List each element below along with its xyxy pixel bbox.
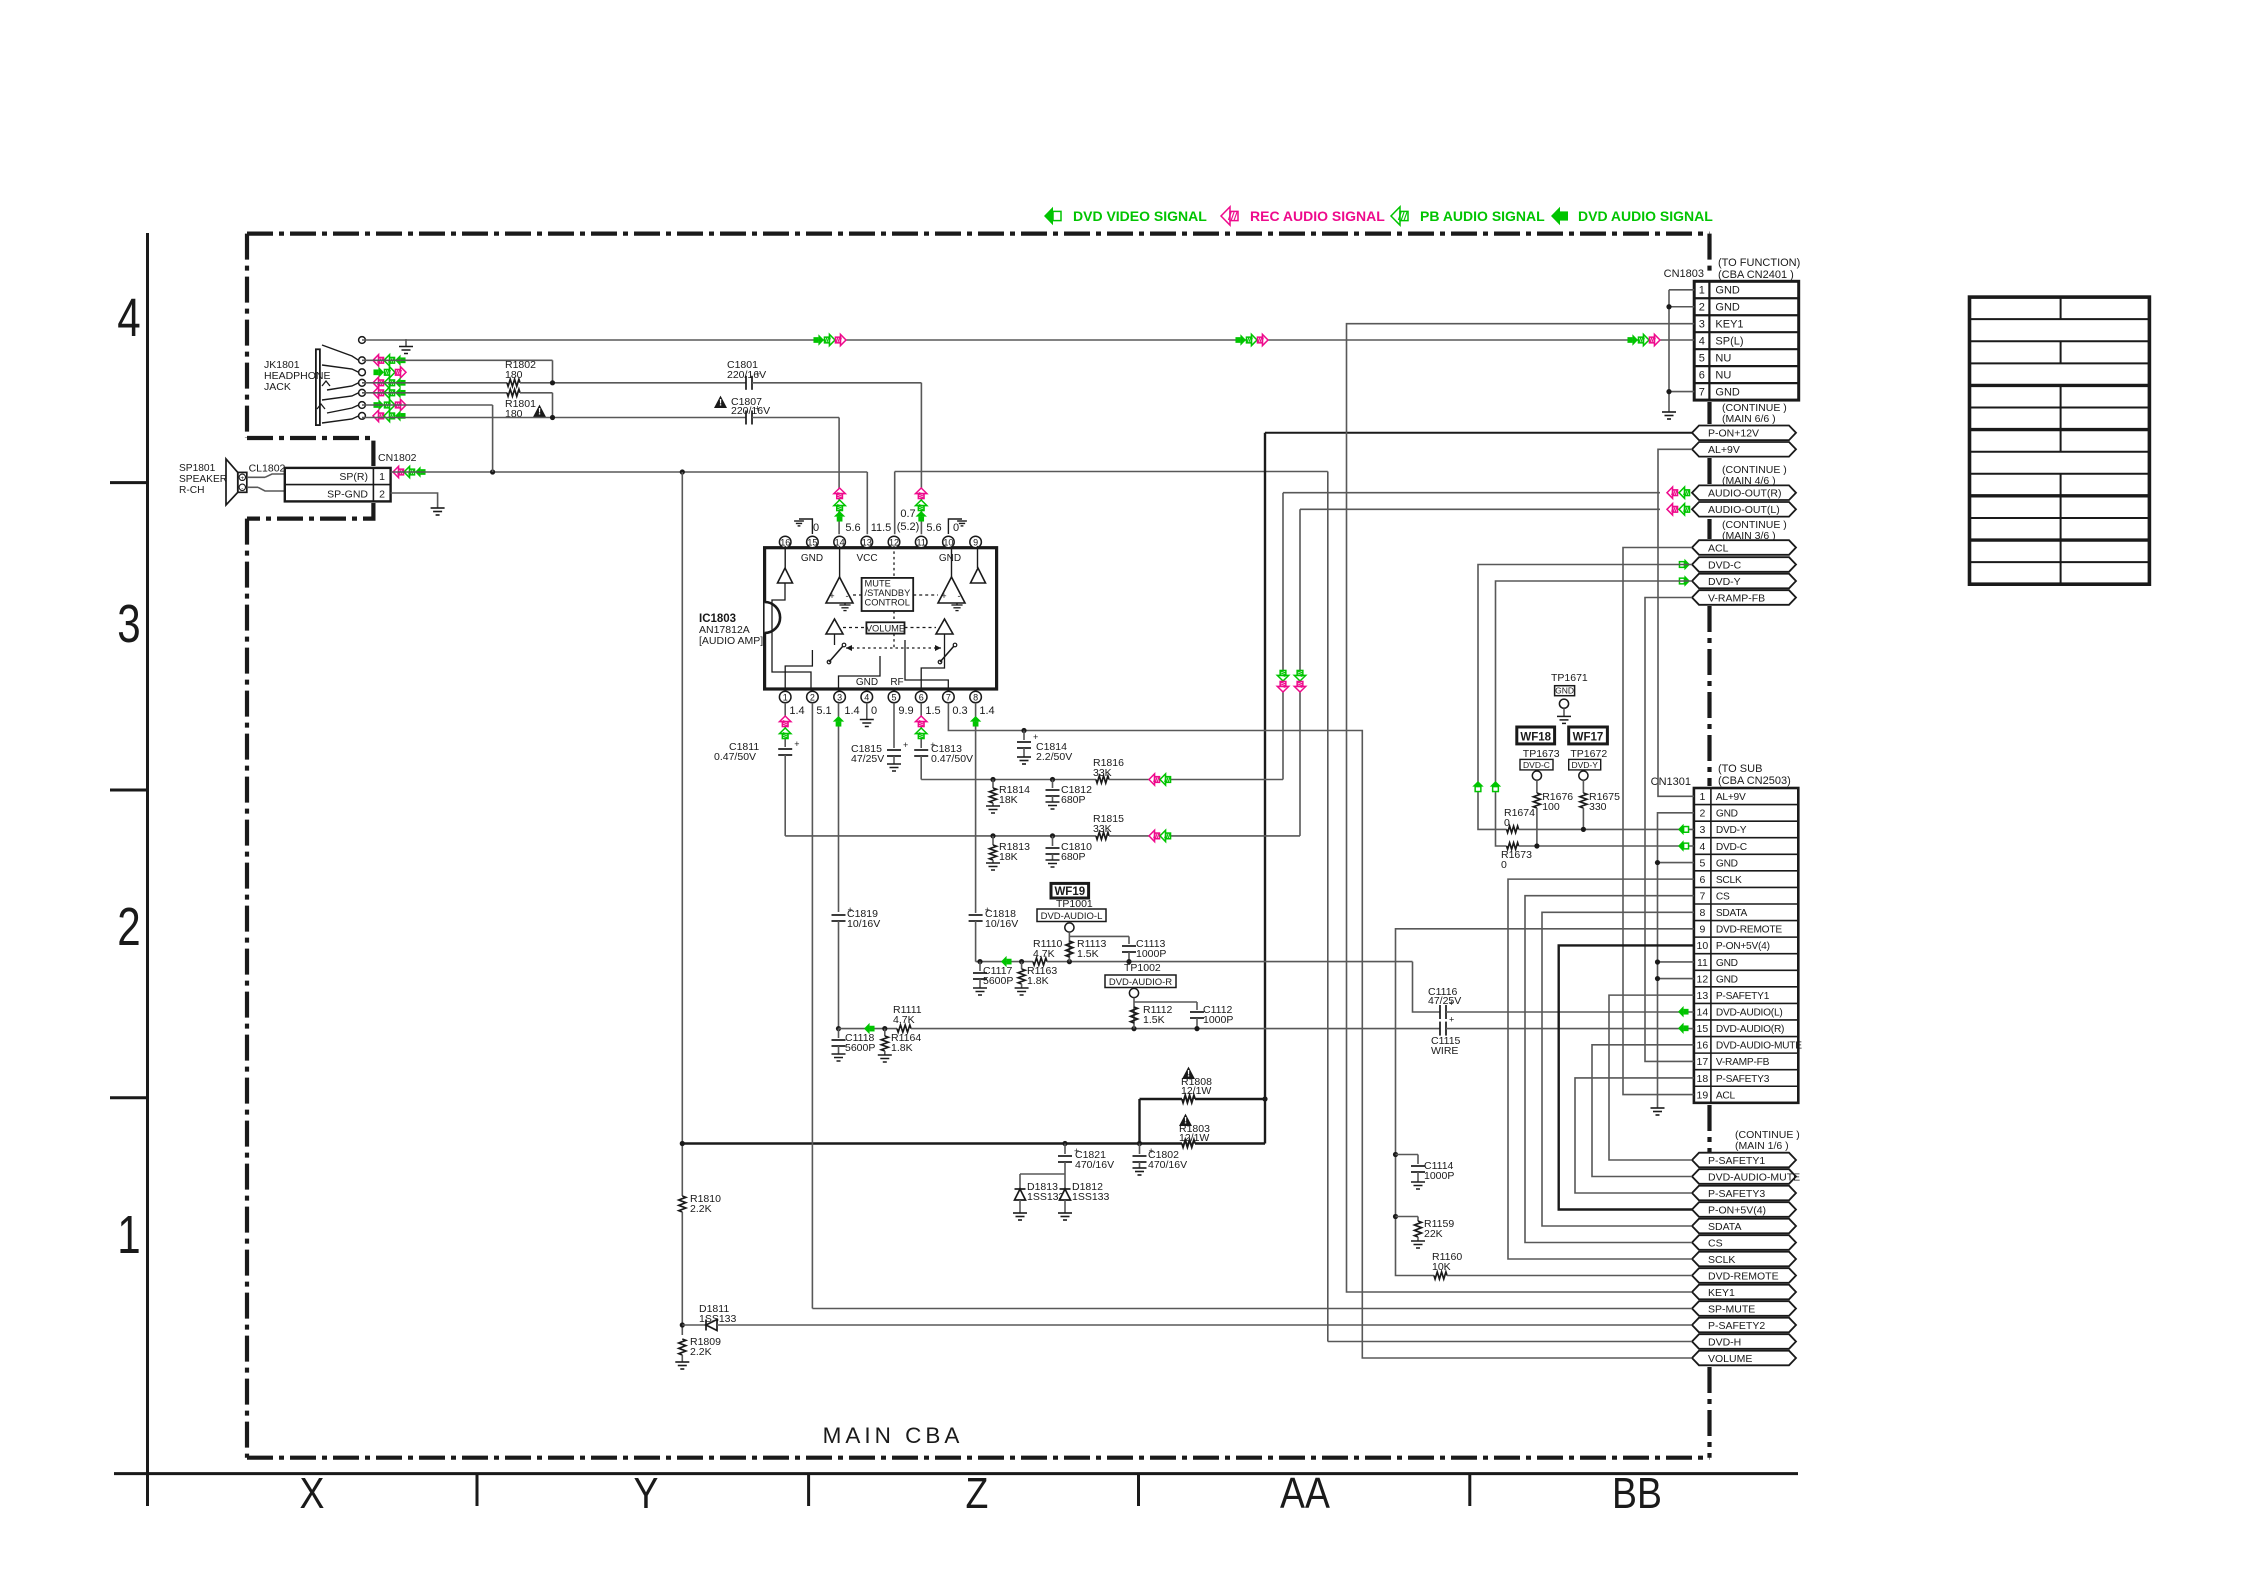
flag P-SAFETY1 — [1692, 1153, 1796, 1168]
svg-text:[AUDIO AMP]: [AUDIO AMP] — [699, 635, 763, 647]
svg-text:GND: GND — [1555, 686, 1574, 696]
svg-text:DVD VIDEO SIGNAL: DVD VIDEO SIGNAL — [1073, 208, 1207, 224]
svg-text:AA: AA — [1280, 1468, 1331, 1518]
svg-text:GND: GND — [1716, 958, 1738, 969]
svg-text:2: 2 — [379, 488, 385, 500]
flag KEY1 — [1692, 1285, 1796, 1300]
svg-text:P-ON+12V: P-ON+12V — [1708, 428, 1759, 440]
svg-text:SPEAKER: SPEAKER — [179, 474, 227, 485]
svg-text:P-SAFETY3: P-SAFETY3 — [1708, 1188, 1765, 1200]
flag SDATA — [1692, 1219, 1796, 1234]
svg-text:5: 5 — [1699, 857, 1705, 869]
svg-text:V-RAMP-FB: V-RAMP-FB — [1708, 592, 1765, 604]
pin 4 ground — [866, 703, 868, 720]
svg-text:P-ON+5V(4): P-ON+5V(4) — [1708, 1204, 1766, 1216]
svg-text:DVD-AUDIO(L): DVD-AUDIO(L) — [1716, 1007, 1783, 1018]
svg-text:P-ON+5V(4): P-ON+5V(4) — [1716, 941, 1770, 952]
flag SCLK — [1692, 1252, 1796, 1267]
flag DVD-Y — [1692, 574, 1796, 589]
svg-text:+: + — [1074, 1146, 1079, 1156]
svg-text:(CBA CN2503): (CBA CN2503) — [1718, 775, 1791, 787]
svg-text:+: + — [985, 905, 990, 915]
svg-text:ACL: ACL — [1708, 542, 1729, 554]
svg-text:WF18: WF18 — [1520, 731, 1551, 743]
diodes D1813 D1812 — [1020, 1173, 1065, 1175]
svg-text:5: 5 — [891, 693, 896, 703]
wire CS — [1525, 896, 1694, 1243]
svg-text:P-SAFETY3: P-SAFETY3 — [1716, 1074, 1770, 1085]
svg-text:SCLK: SCLK — [1708, 1254, 1735, 1266]
svg-text:18: 18 — [1697, 1073, 1709, 1085]
svg-text:KEY1: KEY1 — [1708, 1287, 1735, 1299]
arrows on SP(L) wire — [813, 334, 824, 345]
pin 1 net to AUDIO-OUT(L) — [784, 703, 786, 747]
svg-text:(CBA CN2401 ): (CBA CN2401 ) — [1718, 269, 1794, 281]
svg-text:DVD-REMOTE: DVD-REMOTE — [1708, 1270, 1779, 1282]
svg-text:47/25V: 47/25V — [851, 753, 884, 765]
svg-text:+: + — [1033, 732, 1038, 742]
svg-text:2: 2 — [1699, 302, 1705, 314]
svg-text:1: 1 — [379, 471, 385, 483]
svg-text:10: 10 — [1697, 940, 1709, 952]
legend: DVD AUDIO SIGNAL — [1551, 207, 1568, 225]
svg-text:1SS133: 1SS133 — [1072, 1191, 1110, 1203]
capacitor C1114 — [1393, 1152, 1398, 1157]
svg-text:DVD-H: DVD-H — [1708, 1336, 1741, 1348]
AUDIO-OUT(L) riser — [1299, 509, 1301, 836]
flag P-ON+5V(4) — [1692, 1202, 1796, 1217]
svg-text:17: 17 — [1697, 1056, 1709, 1068]
flag P-SAFETY2 — [1692, 1318, 1796, 1333]
svg-text:NU: NU — [1715, 352, 1731, 364]
svg-text:330: 330 — [1589, 801, 1607, 813]
border frame — [146, 233, 149, 1506]
svg-text:-: - — [241, 485, 243, 492]
arrows above pin 11 — [915, 488, 926, 499]
connector CN1803 — [1694, 281, 1799, 400]
svg-text:2: 2 — [810, 693, 815, 703]
legend: REC AUDIO SIGNAL — [1221, 207, 1238, 225]
svg-text:SP-GND: SP-GND — [327, 488, 368, 500]
svg-text:0.7: 0.7 — [900, 508, 915, 520]
arrows on R1816 line — [1149, 774, 1160, 785]
DVD-AUDIO-L line — [976, 961, 1033, 963]
svg-text:VOLUME: VOLUME — [866, 623, 905, 633]
test point TP1002 — [1131, 1026, 1136, 1031]
svg-text:MUTE: MUTE — [865, 579, 891, 589]
resistor R1159 — [1393, 1214, 1398, 1219]
wire SDATA — [1542, 912, 1694, 1226]
svg-text:+: + — [240, 475, 244, 482]
flag V-RAMP-FB — [1692, 590, 1796, 605]
svg-text:2.2K: 2.2K — [690, 1203, 712, 1215]
svg-text:PB AUDIO SIGNAL: PB AUDIO SIGNAL — [1420, 208, 1545, 224]
svg-text:11: 11 — [917, 538, 926, 548]
svg-text:0.3: 0.3 — [952, 705, 967, 717]
resistor R1814 — [990, 777, 995, 782]
resistor R1813 — [990, 833, 995, 838]
arrow into DVD-C — [1679, 559, 1690, 570]
wire VOLUME from IC pin7 — [948, 703, 1692, 1358]
capacitor C1807 — [714, 396, 727, 408]
wire P-SAFETY3 — [1575, 1078, 1694, 1193]
waveform box WF18 — [1517, 727, 1555, 744]
flag P-ON+12V — [1692, 426, 1796, 441]
svg-text:CL1802: CL1802 — [249, 463, 286, 475]
flag AL+9V — [1692, 442, 1796, 457]
jack pin at y=405.0 — [359, 402, 366, 409]
svg-text:5: 5 — [1699, 352, 1705, 364]
svg-text:(TO SUB: (TO SUB — [1718, 763, 1762, 775]
svg-text:GND: GND — [939, 553, 961, 564]
svg-text:100: 100 — [1542, 801, 1560, 813]
pin 5 to C1815 — [893, 703, 895, 748]
svg-text:(TO FUNCTION): (TO FUNCTION) — [1718, 257, 1800, 269]
flag AUDIO-OUT(R) — [1692, 485, 1796, 500]
wire SP-MUTE from IC pin2 — [811, 703, 813, 1309]
jack pin at y=372.3 — [359, 369, 366, 376]
svg-text:WIRE: WIRE — [1431, 1045, 1458, 1057]
waveform box WF19 — [1051, 883, 1089, 898]
op-amp IC U1803 body — [765, 548, 997, 689]
svg-text:+: + — [829, 591, 834, 601]
wire to IC pin 14 — [838, 418, 840, 535]
resistor R1163 — [1019, 959, 1024, 964]
svg-text:+: + — [930, 740, 935, 750]
svg-text:DVD-AUDIO-MUTE: DVD-AUDIO-MUTE — [1708, 1171, 1800, 1183]
svg-text:0: 0 — [813, 522, 819, 534]
svg-text:5600P: 5600P — [983, 975, 1013, 987]
svg-text:4.7K: 4.7K — [893, 1014, 915, 1026]
svg-text:19: 19 — [1697, 1089, 1709, 1101]
wire ACL — [1623, 548, 1694, 1095]
svg-text:BB: BB — [1612, 1468, 1662, 1518]
svg-text:/STANDBY: /STANDBY — [865, 588, 911, 598]
svg-text:13: 13 — [1697, 990, 1709, 1002]
svg-text:6: 6 — [1699, 874, 1705, 886]
svg-text:1.8K: 1.8K — [891, 1042, 913, 1054]
svg-text:MAIN CBA: MAIN CBA — [823, 1423, 964, 1448]
svg-text:GND: GND — [1715, 302, 1740, 314]
svg-text:NU: NU — [1715, 369, 1731, 381]
wire to IC pin 11 — [920, 383, 922, 534]
svg-text:1.5: 1.5 — [925, 705, 940, 717]
svg-text:Y: Y — [634, 1468, 659, 1518]
svg-text:+: + — [755, 369, 760, 379]
legend: PB AUDIO SIGNAL — [1391, 207, 1408, 225]
svg-text:2.2/50V: 2.2/50V — [1036, 751, 1072, 763]
svg-text:8: 8 — [1699, 907, 1705, 919]
wire jack row2 to R1802 line — [362, 359, 553, 361]
svg-text:4: 4 — [1699, 335, 1705, 347]
svg-text:10/16V: 10/16V — [847, 918, 880, 930]
IC pins bottom 1..8 — [779, 691, 791, 703]
svg-text:+: + — [794, 739, 799, 749]
svg-text:14: 14 — [1697, 1006, 1709, 1018]
R1808 branch — [1138, 1099, 1140, 1144]
svg-text:X: X — [300, 1468, 325, 1518]
svg-text:3: 3 — [1699, 319, 1705, 331]
svg-text:SDATA: SDATA — [1716, 908, 1748, 919]
flag DVD-H — [1692, 1334, 1796, 1349]
capacitor C1814 — [1021, 728, 1026, 733]
svg-text:TP1002: TP1002 — [1124, 962, 1161, 974]
svg-text:RF: RF — [890, 677, 903, 688]
svg-text:DVD-C: DVD-C — [1523, 760, 1550, 770]
svg-text:9: 9 — [1699, 924, 1705, 936]
svg-text:220/16V: 220/16V — [731, 405, 770, 417]
svg-text:4: 4 — [117, 288, 140, 348]
jack pin at y=392.8 — [359, 389, 366, 396]
svg-text:CN1802: CN1802 — [378, 452, 417, 464]
wire AL+9V — [1658, 449, 1694, 796]
svg-text:(MAIN 6/6 ): (MAIN 6/6 ) — [1722, 413, 1776, 425]
svg-text:0: 0 — [871, 705, 877, 717]
pin 6 net to AUDIO-OUT(R) — [920, 703, 922, 748]
svg-text:DVD-Y: DVD-Y — [1708, 576, 1741, 588]
svg-text:1.4: 1.4 — [844, 705, 859, 717]
svg-text:SP1801: SP1801 — [179, 463, 216, 474]
svg-text:15: 15 — [807, 538, 817, 548]
svg-text:Z: Z — [966, 1468, 989, 1518]
flag SP-MUTE — [1692, 1301, 1796, 1316]
waveform box WF17 — [1569, 727, 1608, 744]
svg-text:KEY1: KEY1 — [1715, 319, 1743, 331]
svg-text:5600P: 5600P — [845, 1042, 875, 1054]
wire DVD-C flag to R1674/pin3 — [1478, 565, 1692, 830]
flag P-SAFETY3 — [1692, 1186, 1796, 1201]
flag DVD-REMOTE — [1692, 1268, 1796, 1283]
svg-text:SCLK: SCLK — [1716, 875, 1742, 886]
svg-text:!: ! — [538, 407, 541, 417]
svg-text:+: + — [1449, 1015, 1454, 1025]
svg-text:DVD-AUDIO-MUTE: DVD-AUDIO-MUTE — [1716, 1041, 1802, 1052]
svg-text:DVD-C: DVD-C — [1708, 559, 1742, 571]
svg-text:+: + — [1149, 1146, 1154, 1156]
svg-text:11: 11 — [1697, 957, 1708, 969]
svg-text:680P: 680P — [1061, 851, 1086, 863]
svg-text:0.47/50V: 0.47/50V — [931, 753, 973, 765]
svg-text:0: 0 — [1501, 859, 1507, 871]
flag ACL — [1692, 540, 1796, 555]
svg-text:TP1672: TP1672 — [1570, 748, 1607, 760]
capacitor C1812 — [1050, 777, 1055, 782]
svg-text:GND: GND — [856, 677, 878, 688]
jack pin at y=340 — [359, 337, 366, 344]
flag CS — [1692, 1235, 1796, 1250]
wire DVD-H net from IC pin12 — [894, 472, 896, 535]
svg-text:15: 15 — [1697, 1023, 1709, 1035]
svg-text:DVD-Y: DVD-Y — [1716, 825, 1747, 836]
flag DVD-C — [1692, 557, 1796, 572]
svg-text:REC AUDIO SIGNAL: REC AUDIO SIGNAL — [1250, 208, 1385, 224]
wire SCLK — [1508, 879, 1694, 1259]
svg-text:1.5K: 1.5K — [1077, 948, 1099, 960]
svg-text:CS: CS — [1716, 892, 1730, 903]
svg-text:1.8K: 1.8K — [1027, 975, 1049, 987]
svg-text:AUDIO-OUT(L): AUDIO-OUT(L) — [1708, 504, 1780, 516]
jack pin at y=382.8 — [359, 379, 366, 386]
flag DVD-AUDIO-MUTE — [1692, 1169, 1796, 1184]
wire to P-SAFETY2 flag — [717, 1324, 1692, 1326]
svg-text:JACK: JACK — [264, 381, 291, 393]
svg-text:+: + — [1449, 998, 1454, 1008]
svg-text:9.9: 9.9 — [898, 705, 913, 717]
svg-text:R-CH: R-CH — [179, 485, 204, 496]
arrows above pin 14 — [834, 488, 845, 499]
svg-text:SP(L): SP(L) — [1715, 335, 1743, 347]
svg-text:WF17: WF17 — [1573, 731, 1604, 743]
svg-text:5.1: 5.1 — [816, 705, 831, 717]
svg-text:4: 4 — [864, 693, 869, 703]
svg-text:GND: GND — [1716, 974, 1738, 985]
wire P-ON+5V(4) — [1559, 945, 1694, 1209]
svg-text:10/16V: 10/16V — [985, 918, 1018, 930]
svg-text:+: + — [755, 404, 760, 414]
wire DVD-H column — [1327, 472, 1329, 1342]
svg-text:3: 3 — [1699, 824, 1705, 836]
arrows at CN1802 pin1 — [393, 466, 404, 477]
svg-text:GND: GND — [1716, 858, 1738, 869]
wire DVD-AUDIO-MUTE — [1592, 1045, 1694, 1177]
DVD-AUDIO-R line — [836, 1026, 841, 1031]
pin 3 net / DVD-AUDIO-R — [838, 703, 840, 912]
svg-text:VCC: VCC — [856, 553, 877, 564]
svg-text:7: 7 — [946, 693, 951, 703]
speaker power line y=1143.5 — [682, 1142, 1182, 1144]
wire to C1116/pin14 — [1413, 962, 1441, 1012]
CN1803 ground bus — [1669, 289, 1694, 291]
IC internals — [778, 568, 793, 583]
resistor R1803 12/1W — [1179, 1114, 1192, 1126]
wire V-RAMP-FB — [1645, 598, 1694, 1062]
AUDIO-OUT(R) riser — [1282, 493, 1284, 780]
svg-text:AUDIO-OUT(R): AUDIO-OUT(R) — [1708, 488, 1782, 500]
svg-text:-: - — [958, 591, 961, 601]
svg-text:1.4: 1.4 — [979, 705, 994, 717]
svg-text:8: 8 — [973, 693, 978, 703]
svg-text:DVD-C: DVD-C — [1716, 842, 1747, 853]
svg-text:470/16V: 470/16V — [1075, 1159, 1114, 1171]
svg-text:P-SAFETY1: P-SAFETY1 — [1716, 991, 1770, 1002]
svg-text:DVD-AUDIO-L: DVD-AUDIO-L — [1041, 911, 1103, 922]
svg-text:1.4: 1.4 — [789, 705, 804, 717]
svg-text:V-RAMP-FB: V-RAMP-FB — [1716, 1057, 1770, 1068]
svg-text:GND: GND — [1715, 285, 1740, 297]
svg-text:1000P: 1000P — [1424, 1170, 1454, 1182]
svg-text:4: 4 — [1699, 841, 1705, 853]
svg-text:(MAIN 1/6 ): (MAIN 1/6 ) — [1735, 1140, 1789, 1152]
svg-text:ACL: ACL — [1716, 1090, 1736, 1101]
svg-text:+: + — [903, 740, 908, 750]
svg-text:18K: 18K — [999, 794, 1018, 806]
svg-text:GND: GND — [1716, 809, 1738, 820]
svg-text:1: 1 — [117, 1205, 140, 1265]
P-ON+12V thick vertical — [1264, 433, 1266, 1144]
svg-text:TP1001: TP1001 — [1056, 898, 1093, 910]
jack pin at y=415.9 — [359, 413, 366, 420]
svg-text:5.6: 5.6 — [845, 522, 860, 534]
wire KEY1 — [1347, 324, 1695, 1292]
arrow into DVD-Y — [1679, 575, 1690, 586]
svg-text:6: 6 — [1699, 369, 1705, 381]
svg-text:AL+9V: AL+9V — [1716, 792, 1746, 803]
MAIN CBA border (dash-dot box) — [247, 232, 1710, 236]
svg-text:3: 3 — [117, 594, 140, 654]
flag VOLUME — [1692, 1351, 1796, 1366]
capacitor C1117 — [977, 959, 982, 964]
svg-text:(5.2): (5.2) — [897, 521, 920, 533]
wire SP(R) net y=472 to IC pin13 — [391, 471, 868, 473]
legend: DVD VIDEO SIGNAL — [1044, 207, 1061, 225]
connector CN1301 — [1694, 788, 1798, 1103]
svg-text:1SS133: 1SS133 — [1027, 1191, 1065, 1203]
svg-text:2: 2 — [1699, 808, 1705, 820]
svg-text:2: 2 — [117, 897, 140, 957]
SP(R) vertical with R1810/R1809 — [681, 472, 683, 1196]
svg-text:P-SAFETY2: P-SAFETY2 — [1708, 1320, 1765, 1332]
arrows into AUDIO-OUT(L) — [1667, 504, 1678, 515]
svg-text:1.5K: 1.5K — [1143, 1014, 1165, 1026]
svg-text:GND: GND — [801, 553, 823, 564]
wire P-SAFETY1 — [1609, 995, 1694, 1160]
IC pins top 16..9 — [779, 536, 791, 548]
wire DVD-Y flag to R1673/pin4 — [1496, 581, 1693, 846]
svg-text:DVD-AUDIO-R: DVD-AUDIO-R — [1109, 977, 1172, 988]
svg-text:2.2K: 2.2K — [690, 1346, 712, 1358]
wire SP-GND — [391, 493, 438, 508]
svg-text:AL+9V: AL+9V — [1708, 444, 1740, 456]
svg-text:VOLUME: VOLUME — [1708, 1353, 1752, 1365]
svg-text:SDATA: SDATA — [1708, 1221, 1741, 1233]
svg-text:!: ! — [719, 398, 722, 408]
resistor R1164 — [882, 1026, 887, 1031]
svg-text:10: 10 — [943, 538, 953, 548]
svg-text:-: - — [846, 591, 849, 601]
svg-text:WF19: WF19 — [1054, 886, 1085, 898]
svg-text:1: 1 — [1699, 791, 1705, 803]
test point TP1001 — [1067, 959, 1072, 964]
svg-text:1: 1 — [783, 693, 788, 703]
svg-text:CN1301: CN1301 — [1651, 776, 1691, 788]
arrows on R1815 line — [1149, 830, 1160, 841]
svg-text:+: + — [941, 591, 946, 601]
svg-text:5.6: 5.6 — [926, 522, 941, 534]
svg-text:CONTROL: CONTROL — [865, 598, 910, 608]
svg-text:CN1803: CN1803 — [1664, 268, 1704, 280]
flag AUDIO-OUT(L) — [1692, 502, 1796, 517]
wire SP(L): jack to CN1803 pin4 — [362, 339, 1694, 341]
wire DVD-REMOTE — [1396, 929, 1694, 1276]
svg-text:16: 16 — [1697, 1040, 1709, 1052]
svg-text:22K: 22K — [1424, 1228, 1443, 1240]
svg-text:470/16V: 470/16V — [1148, 1159, 1187, 1171]
resistor R1808 12/1W — [1182, 1067, 1195, 1079]
svg-text:0.47/50V: 0.47/50V — [714, 751, 756, 763]
svg-text:GND: GND — [1715, 386, 1740, 398]
svg-text:47/25V: 47/25V — [1428, 995, 1461, 1007]
svg-text:12: 12 — [1697, 973, 1709, 985]
svg-text:11.5: 11.5 — [871, 522, 892, 534]
pin 8 net / DVD-AUDIO-L — [975, 703, 977, 913]
svg-text:0: 0 — [953, 522, 959, 534]
svg-text:7: 7 — [1699, 386, 1705, 398]
svg-text:SP-MUTE: SP-MUTE — [1708, 1303, 1755, 1315]
svg-text:680P: 680P — [1061, 794, 1086, 806]
svg-text:CS: CS — [1708, 1237, 1723, 1249]
svg-text:DVD-REMOTE: DVD-REMOTE — [1716, 925, 1782, 936]
svg-text:SP(R): SP(R) — [339, 471, 368, 483]
